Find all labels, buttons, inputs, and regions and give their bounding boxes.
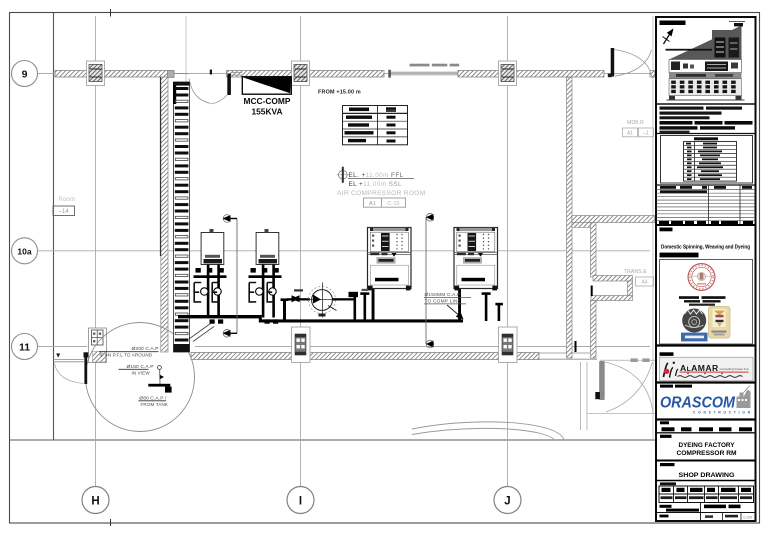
left wall hatched [161, 77, 168, 352]
svg-text:TRANS.&: TRANS.& [624, 269, 647, 275]
svg-text:Room: Room [59, 196, 76, 203]
top wall hatched mid [227, 71, 385, 78]
lower room line [588, 413, 656, 415]
divider above sign table [656, 480, 756, 482]
right wall horizontal D [593, 276, 633, 282]
svg-text:1:100: 1:100 [743, 515, 752, 519]
main pipe step [259, 315, 262, 323]
top wall thin continuation [391, 71, 459, 73]
bubble vent symbol [148, 366, 171, 393]
ladder louver wall [173, 82, 190, 352]
detail bubble circle [86, 323, 195, 432]
column at grid 9/H [87, 61, 105, 86]
bottom drawing-area divider [10, 439, 657, 441]
svg-text:IN VIEW: IN VIEW [132, 370, 151, 375]
svg-text:J: J [504, 496, 510, 508]
svg-text:9: 9 [22, 69, 28, 81]
small unit 2 tank [256, 229, 279, 265]
right stub riser [498, 305, 501, 321]
svg-text:Consulting Group S.A.: Consulting Group S.A. [720, 367, 750, 371]
svg-text:I: I [299, 496, 302, 508]
grid line horizontal 11 [38, 346, 87, 348]
air compressor unit B [454, 228, 498, 291]
svg-text:AIR COMPRESSOR ROOM: AIR COMPRESSOR ROOM [337, 190, 426, 197]
svg-text:DYEING FACTORY: DYEING FACTORY [679, 443, 735, 449]
small unit 1 piping [194, 265, 227, 324]
riser valve left of unit A [364, 294, 367, 321]
bubble note 1 [99, 346, 159, 358]
svg-text:H: H [91, 496, 99, 508]
notes lines [660, 107, 753, 134]
status words [662, 427, 753, 431]
unit B drop pipe [458, 289, 461, 322]
owner black bar [660, 253, 699, 258]
unit A drop pipe [372, 289, 375, 322]
svg-text:FROM +15.00 m: FROM +15.00 m [318, 90, 361, 96]
door leaf top-left [227, 74, 231, 96]
svg-text:Ø200 C.A.P: Ø200 C.A.P [132, 346, 159, 352]
black bar on wall C [591, 286, 593, 297]
pump circle [308, 283, 338, 318]
legend outer box [661, 136, 753, 184]
pump feed elbow [283, 301, 286, 321]
riser at right of unit B [485, 294, 488, 321]
svg-text:SHOP DRAWING: SHOP DRAWING [679, 472, 735, 479]
divider above AMAR [656, 344, 756, 346]
ministry logo dark circle [681, 309, 708, 342]
bottom-right door swing arcs [605, 362, 653, 413]
svg-text:COMPRESSOR RM: COMPRESSOR RM [677, 451, 737, 457]
door post top-right [611, 48, 615, 77]
svg-text:MDB.R: MDB.R [627, 120, 644, 126]
project label [656, 432, 756, 434]
drawing title label [660, 463, 675, 466]
right wall horizontal F [591, 296, 633, 301]
svg-text:C-15: C-15 [387, 201, 400, 207]
dash marks above wall [410, 64, 430, 67]
right wall vertical A [567, 78, 573, 359]
svg-text:ALAMAR: ALAMAR [680, 363, 719, 373]
key plan window grid [671, 81, 735, 94]
ladder rungs [175, 87, 189, 342]
svg-text:EL +11.00m SSL: EL +11.00m SSL [349, 181, 402, 188]
svg-text:–1: –1 [643, 131, 649, 137]
svg-text:–14: –14 [59, 209, 70, 215]
grid line vertical H [95, 16, 97, 487]
svg-text:FROM TANK: FROM TANK [141, 402, 169, 407]
grid line vertical I [300, 16, 302, 487]
ORASCOM logo [660, 386, 751, 415]
apron marker triangle [56, 354, 60, 358]
divider above status [656, 418, 756, 420]
pipe annotation [424, 292, 471, 320]
top wall hatched left [55, 71, 168, 78]
MCC panel at grid 11/H [89, 328, 107, 363]
column at grid 11/J [499, 327, 518, 363]
level marker symbol [337, 167, 350, 183]
right wall vertical G [591, 301, 597, 359]
column at grid 9/J [499, 61, 517, 86]
svg-text:A1: A1 [369, 201, 376, 207]
top wall hatched right [458, 71, 604, 78]
schedule table [343, 106, 408, 145]
bottom wall hatched [191, 353, 539, 360]
sign table label [660, 482, 676, 485]
air compressor unit A [368, 228, 412, 291]
svg-text:EL. +11.00m FFL: EL. +11.00m FFL [349, 172, 404, 179]
wall extension line above room [185, 16, 187, 82]
top wall right stub [650, 71, 655, 78]
key plan label bar [660, 21, 686, 26]
section line 2 [426, 214, 434, 348]
MDB room label [623, 120, 654, 137]
sign table [659, 486, 754, 503]
pipe diagonals to bubble [189, 324, 211, 340]
bottom wall thin segment [539, 352, 597, 354]
pump discharge pipe [333, 298, 356, 300]
grid bubble I [287, 487, 314, 514]
svg-text:Ø150MM C.A.P: Ø150MM C.A.P [425, 292, 461, 298]
small unit 2 piping [249, 265, 282, 324]
stamp box [660, 260, 753, 345]
door hinge tick [210, 70, 212, 75]
status label [660, 421, 669, 424]
red stamp [687, 264, 716, 291]
svg-text:10a: 10a [17, 246, 31, 256]
key plan legs [669, 96, 675, 100]
divider above ORASCOM [656, 381, 756, 383]
door swing arcs top-right [615, 50, 652, 77]
bottom-right door leaf [600, 362, 605, 400]
fold tick top [110, 9, 112, 17]
legend table [684, 142, 737, 182]
svg-text:IF ≠N P.F.L TO AROUND: IF ≠N P.F.L TO AROUND [100, 353, 153, 358]
lower room verticals [580, 362, 582, 430]
AMAR label bar [660, 352, 674, 356]
column at grid 11/I [292, 327, 311, 363]
TRANS room label [624, 269, 654, 286]
revision table [656, 185, 756, 225]
eagle logo [709, 307, 731, 339]
bottom wall sill lines right [600, 359, 655, 361]
left margin divider [53, 13, 55, 441]
legend header bar [694, 137, 718, 140]
pump suction pipe and valve [287, 298, 310, 300]
column at grid 9/I [292, 61, 310, 86]
left black riser pipe [84, 352, 89, 357]
owner label [660, 228, 673, 232]
left wall dark edge [160, 77, 162, 256]
door threshold marks [608, 74, 612, 78]
grid bubble J [494, 487, 521, 514]
door foot [595, 392, 600, 399]
top wall end cap [388, 70, 391, 78]
stamp caption lines [679, 296, 699, 299]
grid bubble H [82, 487, 109, 514]
MCC-COMP symbol box [242, 77, 291, 95]
grid line vertical J [507, 16, 509, 487]
grid bubble 10a [12, 238, 38, 264]
north arrow [663, 29, 674, 45]
main pipe lower run [259, 319, 463, 322]
lower-left door arc [55, 364, 84, 384]
svg-text:C O N S T R U C T I O N: C O N S T R U C T I O N [693, 409, 751, 414]
right wall vertical C [591, 223, 597, 278]
svg-text:A4: A4 [641, 280, 647, 286]
fold tick bottom [110, 519, 112, 526]
gray corner column [167, 70, 174, 77]
apron lines lower-left [54, 359, 85, 361]
grid bubble 11 [12, 334, 38, 360]
svg-text:A1: A1 [627, 131, 633, 137]
svg-text:155KVA: 155KVA [251, 107, 282, 117]
AMAR logo box [660, 357, 754, 381]
key plan building section [666, 22, 746, 96]
main pipe upper run [178, 315, 261, 318]
svg-text:11: 11 [19, 342, 30, 354]
black bar on wall G [575, 341, 577, 352]
bubble note 2 [119, 364, 154, 376]
divider above drawing title [656, 460, 756, 462]
divider under notes [656, 133, 756, 135]
wall lintel to door [174, 73, 189, 75]
duct bend arcs [412, 422, 564, 440]
grid bubble 9 [12, 61, 38, 87]
section line 1 [223, 215, 238, 337]
right wall horizontal B [572, 216, 655, 223]
contractor label bars [660, 385, 673, 388]
door swing arcs top-left [189, 79, 211, 104]
title block border [656, 17, 756, 521]
divider under legend [656, 184, 756, 186]
right wall vertical E [628, 281, 633, 296]
divider under key plan [656, 103, 756, 105]
bottom fields [656, 503, 756, 522]
small unit 1 tank [201, 229, 224, 265]
divider heavy [656, 224, 756, 226]
drawing area right edge line [652, 16, 654, 440]
svg-text:Domestic Spinning, Weaving and: Domestic Spinning, Weaving and Dyeing [661, 245, 750, 251]
right wall stub [572, 223, 591, 228]
grid line horizontal 10a [38, 250, 650, 252]
room tag box [364, 198, 406, 207]
grid line horizontal 9 [38, 73, 650, 75]
svg-text:MCC-COMP: MCC-COMP [244, 96, 291, 106]
bubble note 3 [139, 395, 169, 407]
Room -14 label left [53, 196, 75, 216]
